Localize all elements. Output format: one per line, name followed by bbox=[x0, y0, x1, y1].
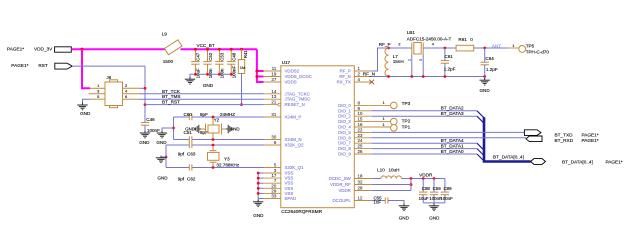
junction VDDR_RF row bbox=[410, 183, 413, 186]
designator TP1 bbox=[402, 125, 411, 130]
value 1M bbox=[240, 65, 246, 70]
svg-text:GND: GND bbox=[185, 127, 195, 132]
value 10uF C88 bbox=[419, 196, 429, 201]
svg-text:BT_RXD: BT_RXD bbox=[555, 138, 574, 143]
bus entry BT_DATA0 bbox=[477, 154, 484, 161]
wire RST from port bbox=[72, 65, 145, 67]
pin 31 X24M_P of U17 (left) bbox=[264, 112, 302, 120]
pin 2 RF_N of U17 (right) bbox=[339, 72, 371, 80]
capacitor C64 1.2pF bbox=[481, 48, 489, 77]
wire RF_P riser bbox=[372, 48, 412, 71]
value 100nF bbox=[147, 128, 160, 133]
svg-text:VDDS: VDDS bbox=[285, 80, 297, 85]
ground RF GND bbox=[479, 78, 490, 93]
pin 29 VSS of U17 (left) bbox=[264, 188, 294, 196]
pin 22 DIO_5 of U17 (right) bbox=[338, 127, 372, 135]
value 8pF C51 bbox=[200, 130, 208, 135]
bus BT_DATA[0..4] bbox=[484, 117, 531, 161]
pin 1 label of TP2 bbox=[383, 116, 386, 121]
bus entry BT_DATA1 bbox=[477, 149, 484, 156]
svg-text:2: 2 bbox=[358, 72, 361, 77]
capacitor C88 10uF bbox=[419, 179, 427, 203]
inductor L10 10uH bbox=[381, 176, 402, 179]
pin 30 X24M_N of U17 (left) bbox=[264, 135, 302, 143]
svg-text:15nH: 15nH bbox=[393, 59, 404, 64]
wire BT_TCK bbox=[140, 93, 264, 95]
wire BT_DATA1 (DIO_8) bbox=[372, 148, 477, 150]
svg-text:ANT: ANT bbox=[492, 44, 502, 49]
pin 7 VSS of U17 (left) bbox=[264, 178, 294, 186]
svg-text:28: 28 bbox=[358, 186, 363, 191]
svg-text:1M: 1M bbox=[240, 65, 246, 70]
svg-text:100n: 100n bbox=[220, 68, 225, 78]
svg-text:DIO_6: DIO_6 bbox=[338, 135, 351, 140]
wire X24M_P row bbox=[174, 116, 264, 118]
svg-text:C60: C60 bbox=[184, 112, 193, 117]
pin 1 label of TP1 bbox=[383, 122, 386, 127]
svg-text:U17: U17 bbox=[282, 60, 291, 65]
svg-text:4: 4 bbox=[432, 42, 435, 47]
pin 9 DIO_1 of U17 (right) bbox=[338, 106, 372, 114]
wire LB1 to R61 bbox=[423, 47, 456, 49]
svg-text:8: 8 bbox=[358, 100, 361, 105]
capacitor C53 100n (VCC_BT decoupling) bbox=[215, 49, 223, 74]
junction rail A / GND jog bbox=[172, 127, 175, 130]
wire ANT to TP5 bbox=[507, 47, 519, 49]
svg-text:1: 1 bbox=[383, 122, 386, 127]
junction dots VCC_BT riser bbox=[255, 70, 258, 79]
svg-text:JTAG_TCKC: JTAG_TCKC bbox=[285, 91, 310, 96]
wire L10 to VDDR node bbox=[402, 178, 445, 180]
designator C88 bbox=[422, 186, 431, 191]
svg-text:VDDS2: VDDS2 bbox=[285, 69, 300, 74]
value CC2640RQFRSMR bbox=[281, 209, 323, 214]
pin 1 of J6 bbox=[90, 83, 105, 88]
junction Y2 top bbox=[212, 116, 215, 119]
svg-text:5: 5 bbox=[97, 94, 100, 99]
wire VDD_3V to L9 (magenta) bbox=[71, 48, 166, 50]
wire VDDR row bbox=[372, 190, 411, 192]
ground rail-A GND bbox=[156, 131, 167, 145]
svg-text:1500: 1500 bbox=[163, 59, 174, 64]
svg-text:BT_DATA3: BT_DATA3 bbox=[441, 111, 464, 116]
wire rail B to GND bbox=[161, 156, 166, 158]
capacitor C51 8pF bbox=[189, 136, 192, 142]
svg-text:19: 19 bbox=[271, 72, 276, 77]
wire J6 pin5 to ground bbox=[83, 99, 91, 104]
svg-text:DIO_4: DIO_4 bbox=[338, 125, 351, 130]
svg-text:CC2640RQFRSMR: CC2640RQFRSMR bbox=[281, 209, 323, 214]
pin 28 VDDR of U17 (right) bbox=[338, 186, 371, 194]
svg-text:L9: L9 bbox=[162, 32, 168, 37]
capacitor C89 100nF bbox=[441, 179, 449, 203]
designator C51 bbox=[184, 130, 193, 135]
designator C60 bbox=[184, 112, 193, 117]
designator C64 bbox=[485, 56, 494, 61]
svg-text:J6: J6 bbox=[107, 75, 112, 80]
svg-text:22: 22 bbox=[358, 127, 363, 132]
svg-text:BT_DATA0: BT_DATA0 bbox=[441, 149, 464, 154]
junction C88 top bbox=[422, 177, 425, 180]
wire VDDR_RF row bbox=[372, 184, 411, 186]
junction dots on VCC_BT rail bbox=[194, 48, 243, 51]
test point TP1 bbox=[391, 125, 398, 132]
pin 4 label of LB1 bbox=[432, 42, 435, 47]
junction L7 top bbox=[387, 47, 390, 50]
wire X24M_N row bbox=[174, 139, 264, 141]
svg-text:EPAD: EPAD bbox=[285, 196, 297, 201]
wire BT_DATA3 (DIO_2) bbox=[372, 115, 477, 117]
svg-text:14: 14 bbox=[271, 89, 276, 94]
pin 5 of J6 bbox=[90, 94, 105, 99]
net label BT_DATA1 bbox=[441, 143, 464, 148]
wire BT_DATA4 (DIO_7) bbox=[372, 142, 477, 144]
value 1.2pF C64 bbox=[486, 67, 498, 72]
svg-text:26: 26 bbox=[358, 149, 363, 154]
svg-text:33: 33 bbox=[271, 194, 276, 199]
pin 32 VDDR_RF of U17 (right) bbox=[330, 180, 372, 188]
ground Y2 left GND bbox=[185, 125, 201, 133]
svg-text:2: 2 bbox=[398, 42, 401, 47]
svg-text:TPH-C-d70: TPH-C-d70 bbox=[526, 49, 550, 54]
svg-text:TP3: TP3 bbox=[402, 101, 411, 106]
svg-text:BT_TXD: BT_TXD bbox=[555, 132, 574, 137]
junction RST / J6 pin2 bbox=[144, 87, 147, 90]
pin 1 label of LB1 (rotated) bbox=[408, 59, 412, 61]
svg-text:13: 13 bbox=[271, 94, 276, 99]
net label VDDR bbox=[419, 172, 433, 177]
test point TP2 bbox=[391, 118, 398, 125]
svg-text:6: 6 bbox=[274, 140, 277, 145]
net label BT_RST bbox=[162, 100, 180, 105]
wire cap-row ground rail bbox=[190, 74, 231, 79]
pin 33 EPAD of U17 (left) bbox=[264, 194, 297, 202]
pin 8 DIO_0 of U17 (right) bbox=[338, 100, 372, 108]
svg-text:9pf: 9pf bbox=[178, 152, 185, 157]
capacitor C48 100nF (VCC_BT decoupling) bbox=[227, 49, 235, 74]
designator C62 bbox=[187, 177, 196, 182]
pin 12 DCOUPL of U17 (right) bbox=[332, 196, 371, 204]
svg-text:16: 16 bbox=[358, 122, 363, 127]
svg-text:DIO_3: DIO_3 bbox=[338, 119, 351, 124]
svg-text:X32K_Q2: X32K_Q2 bbox=[285, 143, 305, 148]
junction Y3 top bbox=[212, 144, 215, 147]
pin 14 JTAG_TCKC of U17 (left) bbox=[264, 89, 310, 97]
pin 18 DCDC_SW of U17 (right) bbox=[329, 174, 372, 182]
designator C52 (rotated) bbox=[208, 52, 213, 61]
junction R41 on BT_RST bbox=[240, 103, 243, 106]
pin 4 RX_TX of U17 (right) bbox=[337, 77, 372, 85]
value 15nH bbox=[393, 59, 404, 64]
svg-text:PAGE1*: PAGE1* bbox=[11, 63, 28, 68]
pin 2 label of LB1 bbox=[398, 42, 401, 47]
svg-text:DCOUPL: DCOUPL bbox=[332, 198, 351, 203]
pin 20 VSS of U17 (left) bbox=[264, 183, 294, 191]
svg-text:100n: 100n bbox=[208, 68, 213, 78]
junction RST / BT_RST bbox=[144, 103, 147, 106]
crystal Y3 32.768KHz bbox=[208, 145, 220, 168]
wire R61 to ANT bbox=[474, 47, 507, 49]
svg-text:PAGE1*: PAGE1* bbox=[606, 159, 623, 164]
wire VDDR cap ground rail bbox=[423, 203, 445, 206]
svg-text:VDDR_RF: VDDR_RF bbox=[330, 182, 351, 187]
wire DCDC_SW to L10 bbox=[372, 178, 381, 180]
junction VDD_3V vertical drop bbox=[80, 48, 83, 51]
pin 5 X32K_Q1 of U17 (left) bbox=[264, 163, 305, 171]
svg-text:JTAG_TMSC: JTAG_TMSC bbox=[285, 97, 311, 102]
svg-text:8pF: 8pF bbox=[200, 112, 208, 117]
capacitor C46 100nF bbox=[141, 123, 149, 133]
junction C61 top bbox=[444, 47, 447, 50]
pin 6 X32K_Q2 of U17 (left) bbox=[264, 140, 305, 148]
svg-text:100nF: 100nF bbox=[147, 128, 160, 133]
svg-text:10: 10 bbox=[358, 111, 363, 116]
svg-text:100nF: 100nF bbox=[232, 66, 237, 79]
test point TP5 bbox=[519, 46, 526, 53]
svg-text:X24M_N: X24M_N bbox=[285, 137, 302, 142]
svg-text:GND: GND bbox=[203, 83, 214, 88]
value 1.2pF C61 bbox=[444, 66, 456, 71]
wire RST vertical to C46 bbox=[144, 66, 146, 123]
designator C47 (rotated) bbox=[196, 52, 201, 61]
svg-text:VDDS_DCDC: VDDS_DCDC bbox=[285, 74, 312, 79]
designator Y2 bbox=[214, 117, 220, 122]
designator C61 bbox=[444, 54, 453, 59]
inductor L7 15nH bbox=[385, 48, 389, 77]
svg-text:BT_DATA[0..4]: BT_DATA[0..4] bbox=[562, 159, 593, 164]
net label BT_DATA3 bbox=[441, 111, 464, 116]
designator C63 bbox=[187, 152, 196, 157]
wire DIO_0 to TP3 bbox=[372, 104, 391, 106]
svg-text:GND: GND bbox=[479, 88, 490, 93]
balun LB1 ADFC15-2450 bbox=[412, 43, 423, 77]
junction L7 bottom bbox=[387, 75, 390, 78]
junction Y3 bottom bbox=[212, 166, 215, 169]
wire J6 pin2 to RST bbox=[140, 87, 146, 89]
value 8pF C60 bbox=[200, 112, 208, 117]
test point TP3 bbox=[391, 102, 398, 109]
value 100n (rotated) bbox=[220, 68, 225, 78]
svg-text:RF_N: RF_N bbox=[363, 72, 375, 77]
designator C59 bbox=[433, 186, 442, 191]
svg-text:BT_TMS: BT_TMS bbox=[162, 94, 181, 99]
svg-text:C63: C63 bbox=[187, 152, 196, 157]
junction C61 bottom bbox=[444, 75, 447, 78]
svg-text:10uF: 10uF bbox=[419, 196, 429, 201]
svg-text:GND: GND bbox=[156, 140, 167, 145]
svg-text:C53: C53 bbox=[220, 52, 225, 61]
svg-text:C64: C64 bbox=[485, 56, 494, 61]
pin 26 DIO_9 of U17 (right) bbox=[338, 149, 372, 157]
svg-text:TP1: TP1 bbox=[402, 125, 411, 130]
op-amp U17 body (CC2640 ic outline) bbox=[281, 66, 355, 208]
designator L10 bbox=[377, 167, 385, 172]
svg-text:3: 3 bbox=[419, 59, 423, 61]
pin 3 VSS of U17 (left) bbox=[264, 168, 294, 176]
pin 16 DIO_4 of U17 (right) bbox=[338, 122, 372, 130]
svg-text:DIO_7: DIO_7 bbox=[338, 141, 351, 146]
wire BT_DATA0 (DIO_9) bbox=[372, 153, 477, 155]
svg-text:24: 24 bbox=[358, 138, 363, 143]
resistor R41 1M bbox=[238, 49, 244, 104]
designator TP3 bbox=[402, 101, 411, 106]
wire BT_TMS bbox=[140, 98, 264, 100]
svg-text:1: 1 bbox=[408, 59, 412, 61]
svg-text:DIO_8: DIO_8 bbox=[338, 146, 351, 151]
value 32.768KHz bbox=[216, 162, 239, 167]
svg-text:3: 3 bbox=[97, 89, 100, 94]
value ADFC15-2450.00-A-T bbox=[407, 36, 452, 41]
svg-text:DCDC_SW: DCDC_SW bbox=[329, 176, 352, 181]
svg-text:BT_DATA[0..4]: BT_DATA[0..4] bbox=[493, 154, 524, 159]
value 9pf C62 bbox=[178, 177, 185, 182]
ground rail-B GND bbox=[156, 156, 168, 181]
junction C64 top bbox=[483, 47, 486, 50]
svg-text:GND: GND bbox=[429, 215, 440, 220]
svg-text:X32K_Q1: X32K_Q1 bbox=[285, 165, 305, 170]
value 100nF (rotated) bbox=[232, 66, 237, 79]
wire DIO_4 to TP1 bbox=[372, 126, 391, 128]
svg-text:1.2pF: 1.2pF bbox=[486, 67, 498, 72]
inductor L9 (ferrite bead, slanted body) bbox=[162, 32, 182, 64]
junction VDDR riser top bbox=[410, 177, 413, 180]
junction LB1 pin3 / gnd rail bbox=[422, 75, 425, 78]
svg-text:TP5: TP5 bbox=[526, 44, 535, 49]
svg-text:9pf: 9pf bbox=[178, 177, 185, 182]
net label RF_P bbox=[379, 42, 391, 47]
wire DIO_3 to TP2 bbox=[372, 121, 391, 123]
svg-text:C47: C47 bbox=[196, 52, 201, 61]
pin 4 of J6 bbox=[123, 89, 140, 94]
wire VDD_3V drop to J6 pin 1 bbox=[82, 49, 90, 88]
wire C55 to ground bbox=[388, 201, 404, 206]
designator LB1 bbox=[407, 30, 416, 35]
off-page connector BT_DATA[0..4] bbox=[531, 159, 623, 165]
designator C89 bbox=[444, 186, 453, 191]
wire RF gnd drop bbox=[484, 77, 486, 80]
wire BT_RXD (DIO_6) bbox=[372, 137, 526, 139]
net label 24MHZ bbox=[220, 112, 235, 117]
capacitor C61 1.2pF bbox=[441, 48, 449, 77]
pin 2 of J6 bbox=[123, 83, 140, 88]
junction Y2 bottom bbox=[212, 138, 215, 141]
svg-text:6: 6 bbox=[125, 94, 128, 99]
value 0 bbox=[470, 37, 473, 42]
svg-text:C48: C48 bbox=[232, 52, 237, 61]
capacitor C62 9pf bbox=[189, 164, 192, 170]
pin 23 DIO_6 of U17 (right) bbox=[338, 133, 372, 141]
svg-text:1.2pF: 1.2pF bbox=[444, 66, 456, 71]
svg-text:RST: RST bbox=[38, 63, 48, 68]
bus entry BT_DATA2 bbox=[477, 111, 484, 118]
net label ANT bbox=[492, 44, 502, 49]
designator R41 (rotated) bbox=[243, 50, 248, 59]
value 9pf C63 bbox=[178, 152, 185, 157]
net label VCC_BT bbox=[197, 43, 215, 48]
svg-text:1: 1 bbox=[512, 43, 515, 48]
designator TP5 bbox=[526, 44, 535, 49]
svg-text:1: 1 bbox=[383, 116, 386, 121]
junction C64 bottom / gnd drop bbox=[483, 75, 486, 78]
junction C59 top bbox=[433, 177, 436, 180]
pin 27 VDDS of U17 (left) bbox=[264, 77, 297, 85]
svg-text:8pF: 8pF bbox=[200, 130, 208, 135]
pin 15 DIO_3 of U17 (right) bbox=[338, 117, 372, 125]
svg-text:24MHZ: 24MHZ bbox=[220, 112, 235, 117]
svg-text:10uH: 10uH bbox=[389, 167, 400, 172]
wire BT_RST bbox=[145, 104, 264, 106]
svg-text:C61: C61 bbox=[444, 54, 453, 59]
ground C55 GND bbox=[399, 204, 410, 221]
svg-text:X24M_P: X24M_P bbox=[285, 115, 302, 120]
pin 1 label of TP5 bbox=[512, 43, 515, 48]
svg-text:GND: GND bbox=[139, 140, 150, 145]
svg-text:1: 1 bbox=[358, 66, 361, 71]
svg-text:DIO_0: DIO_0 bbox=[338, 103, 351, 108]
svg-text:L10: L10 bbox=[377, 167, 385, 172]
net label RF_N bbox=[363, 72, 375, 77]
junction dots VSS rail bbox=[257, 172, 260, 195]
svg-text:Y3: Y3 bbox=[224, 157, 230, 162]
svg-text:32.768KHz: 32.768KHz bbox=[216, 162, 239, 167]
junction rail B / GND jog bbox=[165, 156, 168, 159]
designator U17 bbox=[282, 60, 291, 65]
capacitor C55 1uF bbox=[385, 197, 388, 203]
value 100nF C59 bbox=[429, 196, 442, 201]
pin 10 DIO_2 of U17 (right) bbox=[338, 111, 372, 119]
pin 21 RESET_N of U17 (left) bbox=[264, 100, 305, 108]
bus entry BT_DATA4 bbox=[477, 143, 484, 150]
designator C48 (rotated) bbox=[232, 52, 237, 61]
svg-text:R61: R61 bbox=[458, 37, 467, 42]
svg-text:VDD_3V: VDD_3V bbox=[34, 47, 53, 52]
off-page connector VDD_3V (PAGE1*) bbox=[7, 47, 71, 53]
value 1uF bbox=[374, 200, 382, 205]
svg-text:4: 4 bbox=[358, 77, 361, 82]
svg-text:BT_DATA2: BT_DATA2 bbox=[441, 106, 464, 111]
svg-text:C89: C89 bbox=[444, 186, 453, 191]
capacitor C47 10uF (VCC_BT decoupling) bbox=[191, 49, 199, 74]
crystal Y2 24MHz bbox=[201, 117, 226, 140]
svg-text:32: 32 bbox=[358, 180, 363, 185]
svg-text:DIO_5: DIO_5 bbox=[338, 130, 351, 135]
svg-text:PAGE1*: PAGE1* bbox=[582, 132, 599, 137]
svg-text:BT_RST: BT_RST bbox=[162, 100, 180, 105]
net label BT_DATA2 bbox=[441, 106, 464, 111]
net label BT_DATA4 bbox=[441, 138, 464, 143]
svg-text:27: 27 bbox=[271, 77, 276, 82]
wire crystal gnd rail A bbox=[173, 117, 175, 140]
designator Y3 bbox=[224, 157, 230, 162]
wire VCC_BT rail (magenta) bbox=[181, 48, 257, 50]
ground J6 GND bbox=[77, 103, 91, 116]
pin 6 of J6 bbox=[123, 94, 140, 99]
designator C55 bbox=[374, 195, 383, 200]
svg-text:LB1: LB1 bbox=[407, 30, 416, 35]
svg-text:RF_P: RF_P bbox=[379, 42, 391, 47]
off-page connector BT_RXD bbox=[526, 136, 599, 143]
wire RF_N row bbox=[372, 76, 485, 78]
svg-text:18: 18 bbox=[358, 174, 363, 179]
value 10uF (rotated) bbox=[196, 68, 201, 78]
net label BT_DATA0 bbox=[441, 149, 464, 154]
svg-text:23: 23 bbox=[358, 133, 363, 138]
svg-text:C88: C88 bbox=[422, 186, 431, 191]
designator L7 bbox=[393, 54, 399, 59]
value 100n (rotated) bbox=[208, 68, 213, 78]
svg-text:C52: C52 bbox=[208, 52, 213, 61]
svg-text:GND: GND bbox=[399, 215, 410, 220]
